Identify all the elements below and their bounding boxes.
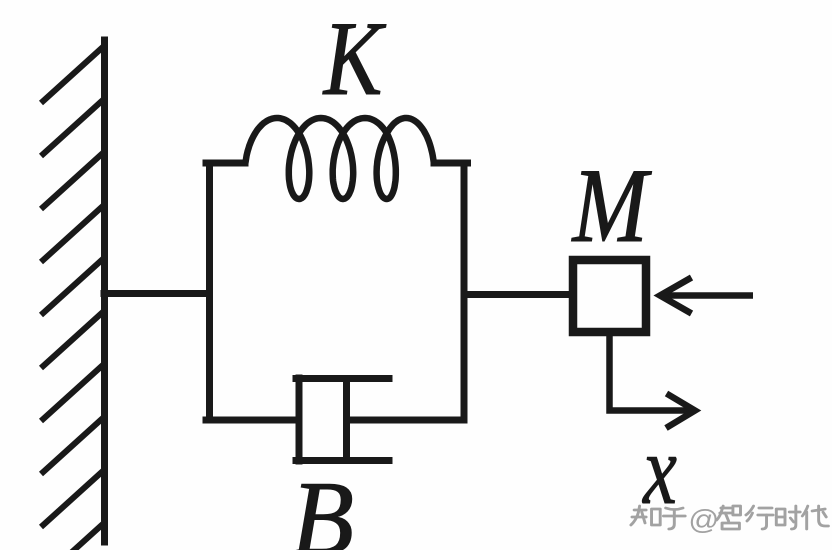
svg-text:B: B <box>291 460 354 550</box>
svg-text:@: @ <box>688 505 719 536</box>
svg-text:K: K <box>322 0 387 118</box>
svg-text:M: M <box>571 147 653 264</box>
